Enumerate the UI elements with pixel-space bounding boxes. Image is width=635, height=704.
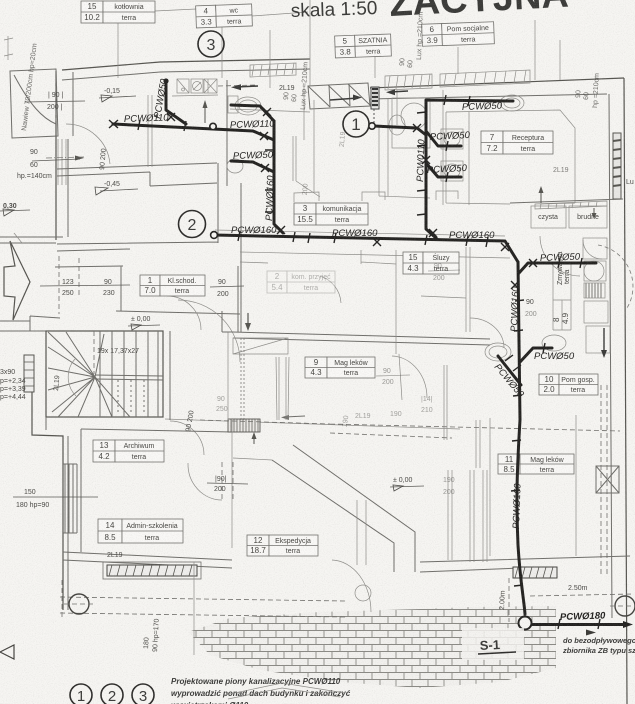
text do bezodplywowego [562, 636, 635, 655]
dim 90/60 hp140 [17, 149, 52, 180]
wall right of mag lekow room [575, 415, 577, 556]
roof arrow above bottom text [225, 683, 345, 699]
up arrow mid [252, 432, 257, 444]
pipe toilet branch top [231, 105, 274, 121]
stairs center dash [93, 331, 95, 374]
pipe PCWO50 branch mid-left [231, 161, 274, 172]
arc kom przyjec [320, 276, 341, 303]
dim -0.15 with arrow [99, 88, 136, 102]
door arc kl.schod [167, 296, 201, 330]
dashed arc right wall [598, 245, 633, 308]
hatch block mid corridor [228, 419, 260, 432]
dim 90/200 mid faint [376, 368, 410, 386]
washbasin symbol 1 [177, 79, 189, 93]
canopy corner lines bottom-left of brick [272, 445, 415, 572]
sill line across middle [165, 419, 460, 429]
room table 9 mag lekow [305, 357, 375, 378]
nawiew duct box [10, 69, 58, 138]
wc room walls (circle1 area) [379, 90, 430, 198]
dim 90/200 right faint [428, 263, 460, 282]
wall x=314 [304, 86, 388, 192]
stairs straight treads [100, 331, 158, 417]
dim 90/200 sluzy [525, 299, 537, 318]
manhole circle left [64, 594, 94, 614]
sluzy room wall verticals [421, 247, 470, 332]
door arc entry left [66, 124, 110, 164]
faint dims mid bottom [342, 411, 402, 428]
dim -0.45 with arrow [95, 181, 138, 195]
wall below room2 horizontal [222, 311, 490, 345]
walls near sluzy left [361, 250, 402, 400]
door arc receptura [178, 300, 240, 362]
wall below corridor left [55, 266, 240, 314]
top wall hatched band left [250, 63, 296, 77]
room table 14 admin szkolenia [98, 519, 183, 543]
washbasin oval lower [227, 159, 243, 173]
pipe riser1 vertical x274 [274, 121, 283, 233]
dim 90/200 top-left [47, 92, 63, 111]
manhole circle right [610, 596, 635, 616]
room table 1 kl.schod [140, 275, 205, 296]
left exterior wall upper double [55, 71, 57, 240]
pipe branch PCWO50 b2 [426, 163, 461, 177]
room table 10 pom gosp [539, 374, 598, 395]
wall below chimney [230, 109, 310, 112]
circled 3 bottom [132, 684, 154, 704]
lintel beam right (hatched) [513, 567, 557, 578]
door arc sluzy room [470, 318, 504, 348]
wall stub to diagonal [233, 458, 272, 460]
dim 2.50m right [530, 585, 633, 596]
node S-1 manhole [519, 617, 532, 630]
room table 8 zmywalnia rotated [552, 251, 571, 330]
dashed door verticals ekspedycja [222, 462, 233, 500]
door arc ekspedycja [188, 463, 222, 500]
door arc room9 [392, 356, 427, 398]
node at circle1 [369, 123, 375, 129]
S-1 label [478, 637, 516, 654]
dim 150/180 hp90 [16, 489, 49, 509]
pipe diagonal branch PCWO50 [498, 356, 521, 385]
blank patch behind S-1 [462, 628, 524, 660]
door arc bottom mid [332, 560, 371, 612]
left edge tick top [4, 36, 13, 60]
dim 90/200 door ekspedycja [207, 476, 248, 493]
faint dims room13 right [443, 477, 455, 496]
circled 3 top [198, 31, 224, 57]
corridor pilaster niches [294, 191, 458, 202]
pipe mid branch PCWO50 [520, 348, 552, 362]
wall x=241 vertical (kl.schod right) [238, 183, 241, 332]
riser shaft dark strip [371, 87, 379, 123]
pipe PCWO160 main run horizontal [214, 235, 518, 262]
room table 13 archiwum [93, 440, 164, 462]
top exterior wall outer line [62, 59, 310, 70]
entrance jambs [0, 237, 63, 331]
dim 0.30 left [0, 203, 30, 216]
wc room second toilet ovals [389, 98, 430, 148]
dim verticals top [118, 0, 560, 88]
arrowhead outlet [623, 621, 633, 628]
small arrow right of 90/60 [75, 156, 84, 161]
dim 2.00m rotated [499, 578, 509, 622]
rotated lux text mid (between szatnia and pom socjalne) [399, 12, 425, 68]
chimney block with diagonal hatch [308, 83, 370, 109]
washbasin symbol 2 [191, 79, 203, 93]
stair hatched column [24, 355, 34, 392]
entrance lower jamb walls [0, 243, 60, 331]
door arc right czysta [583, 240, 602, 259]
door arc sluzy [540, 236, 580, 276]
basins right wing (branch1 and branch2) [441, 129, 463, 181]
level dim line left [13, 101, 98, 497]
central vertical wall x=230 [226, 80, 228, 186]
czysta box [531, 206, 566, 228]
X-hatched box right side [596, 466, 619, 493]
washbasin symbol 3 [204, 79, 217, 93]
receptura room outline [446, 110, 575, 204]
small arrow under text [586, 630, 596, 636]
toilet fixture ovals [235, 97, 261, 115]
dim plus000 stairs [128, 316, 160, 330]
stairs center arc [68, 358, 76, 396]
circled 2 bottom [101, 684, 123, 704]
dim 90/200 kom przyjec faint [302, 183, 310, 195]
top exterior wall inner line [62, 69, 310, 80]
dash-dot through pilaster [46, 157, 84, 158]
bottom-left small arrow [0, 645, 14, 659]
bottom middle rooms verticals [448, 420, 487, 562]
pipe PCWO50 riser top-left vertical [166, 81, 186, 124]
up arrow above czysta [539, 186, 544, 203]
dashed pair below 123/250 [59, 256, 79, 314]
right exterior wall [624, 78, 627, 704]
room table 12 ekspedycja [247, 535, 318, 556]
dashed connector [218, 85, 258, 86]
left wall pilaster lines [58, 139, 66, 185]
node on PCWO110 run [210, 123, 216, 129]
rotated lux text top1 [283, 62, 310, 111]
ekspedycja right wall verticals [357, 500, 366, 565]
top wall hatched band mid [385, 74, 432, 90]
circled 1 [343, 111, 369, 137]
right wing wall horizontals czysta/brudne [510, 199, 623, 203]
pipe riser3 vertical to S-1 [517, 262, 525, 614]
pipe riser2 from node1 [374, 126, 437, 239]
X marks on pipes [109, 108, 537, 289]
right window dark strip [613, 133, 621, 199]
left texts 3x90 etc [0, 369, 26, 401]
pipe zmywalnia branch PCWO50 [519, 263, 596, 273]
wall line under basins [172, 95, 218, 96]
down arrow in brudne [592, 208, 597, 219]
down arrow room2 [245, 313, 251, 331]
circled 2 [179, 211, 206, 238]
dim 90/200 room1 [210, 279, 244, 298]
rotated lux text top2 [575, 73, 601, 108]
room15 bottom wall [57, 163, 218, 251]
up arrow corridor [203, 100, 208, 123]
rotated dim 180 hp170 [143, 562, 194, 655]
wall left of mag lekow room [489, 418, 491, 556]
arrow into chimney [330, 95, 362, 101]
faint dim 90/250 [216, 396, 228, 413]
left wall lower double with jog [32, 392, 63, 610]
pipe PCWO110 main horizontal run left [113, 124, 274, 140]
room table 7 receptura [481, 131, 553, 154]
stairs winder fan [48, 332, 130, 417]
left wing top wall [81, 429, 232, 432]
small left arrow corridor [281, 415, 305, 420]
kotlownia inner walls [148, 95, 152, 167]
foundation dashed lines left [60, 580, 345, 618]
ramp symbol [233, 338, 288, 354]
pipe branch PCWO50 b1 [426, 131, 461, 146]
left wing bottom wall [63, 552, 232, 568]
left lower window pilaster [63, 464, 77, 533]
top wall hatched band right [440, 70, 530, 87]
corridor walls around pipe run [215, 230, 510, 263]
door arc archiwum [170, 421, 204, 455]
dim 140/210 faint left of riser3 [421, 396, 433, 414]
column verticals mid [276, 357, 289, 420]
circled 1 bottom [70, 684, 92, 704]
pipe S-1 outlet horizontal [532, 623, 624, 626]
wall x=293 [293, 136, 320, 197]
dim plus000 bottom [390, 477, 424, 491]
lintel beam left (hatched) [103, 562, 201, 579]
dotted column pair [241, 338, 244, 420]
left arrow near wc [231, 84, 258, 90]
node on PCWO160 run [211, 232, 218, 239]
pipe riser2 top to PCWO50 run [426, 100, 513, 135]
dashed verticals right side [601, 385, 607, 575]
room table 2 kom przyjec (faint) [267, 271, 335, 293]
kitchen fixtures column right [583, 238, 610, 353]
room table 4 wc [196, 4, 253, 28]
entrance block arrow [4, 241, 30, 320]
stairs outer box [46, 331, 163, 417]
left arrow top middle [386, 89, 408, 95]
cistern box [228, 96, 238, 113]
dashed level lines mid-bottom [200, 420, 620, 438]
tick marks on pipes [138, 95, 600, 629]
room table 6 pom socjalne [422, 22, 495, 46]
faint dim 2L19 mid [339, 131, 347, 147]
stairs center horizontals [95, 375, 163, 380]
dashed opening left wall [56, 78, 73, 121]
dim 123/250 [40, 279, 130, 297]
stairs walking line dotted [118, 380, 144, 415]
room table 15b sluzy [403, 252, 459, 274]
column pair mid-right [444, 365, 447, 440]
small circle fixture bottom middle [355, 585, 371, 601]
dim 90/230 [103, 279, 115, 297]
sluzy room sink ovals mid [485, 335, 566, 361]
down arrow right side [601, 328, 607, 358]
room table 5 szatnia [335, 34, 392, 58]
brudne box [569, 206, 607, 228]
room table 15 kotlownia [81, 1, 155, 23]
right wing wall x=443 [443, 90, 469, 205]
sink oval top right [500, 95, 524, 111]
room table 11 mag lekow [498, 454, 574, 474]
door tick entrance [14, 233, 22, 243]
room table 3 komunikacja [294, 203, 368, 225]
left wing right wall [228, 332, 232, 548]
right wing bottom wall [420, 556, 630, 572]
